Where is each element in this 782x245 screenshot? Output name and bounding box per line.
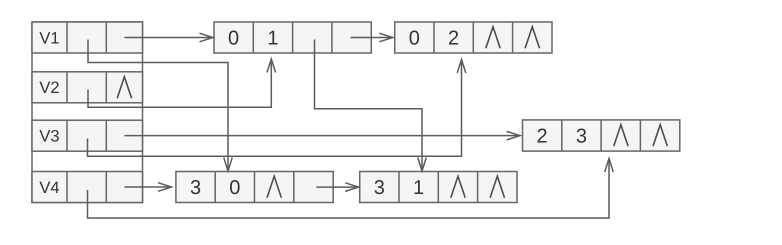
svg-text:1: 1: [413, 177, 424, 199]
null mark node E cell3: [614, 125, 628, 147]
vertex row V4: [32, 172, 143, 203]
wire node A cell4 to node B: [351, 33, 393, 42]
wire V2 mid pointer up to node A cell2: [88, 59, 276, 107]
vertex row V2: [32, 72, 143, 103]
svg-text:V2: V2: [39, 79, 59, 97]
null mark in V2 right cell: [117, 77, 131, 99]
edge node C (3,0): [176, 172, 333, 203]
svg-text:V3: V3: [39, 128, 59, 146]
null mark node D cell3: [451, 176, 465, 198]
svg-text:0: 0: [409, 28, 420, 50]
edge node E (2,3): [523, 120, 680, 151]
vertex row V3: [32, 120, 143, 151]
svg-text:3: 3: [576, 126, 587, 148]
edge node D (3,1): [360, 172, 517, 203]
wire V4 mid pointer up to node E: [88, 159, 614, 219]
null mark node D cell4: [490, 176, 504, 198]
vertex row V1: [32, 22, 143, 53]
wire V1 mid pointer to node C: [88, 40, 232, 172]
svg-text:0: 0: [228, 28, 239, 50]
wire V4 firstedge to node C: [124, 183, 171, 192]
svg-text:3: 3: [374, 177, 385, 199]
wire V3 mid pointer up to node B cell2: [88, 60, 466, 157]
null mark node E cell4: [653, 125, 667, 147]
edge node A (0,1): [214, 22, 371, 53]
svg-text:2: 2: [448, 28, 459, 50]
wire V3 firstedge to node E: [124, 131, 520, 140]
wire node A cell3 down to node D: [315, 40, 427, 172]
null mark node B cell3: [486, 27, 500, 49]
svg-text:V1: V1: [39, 29, 59, 47]
svg-text:2: 2: [537, 126, 548, 148]
svg-text:3: 3: [190, 177, 201, 199]
null mark node C cell3: [267, 176, 281, 198]
svg-text:0: 0: [229, 177, 240, 199]
vertex table outer frame: [32, 22, 143, 203]
svg-text:V4: V4: [39, 179, 59, 197]
svg-text:1: 1: [267, 28, 278, 50]
wire node C cell4 to node D: [316, 183, 358, 192]
wire V1 firstedge to node A: [124, 33, 213, 42]
edge node B (0,2): [395, 22, 552, 53]
null mark node B cell4: [525, 27, 539, 49]
